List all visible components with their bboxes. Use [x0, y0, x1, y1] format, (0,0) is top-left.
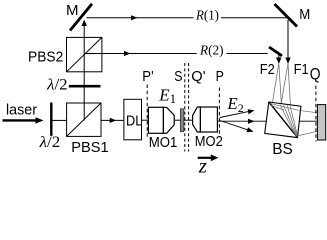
svg-text:BS: BS — [272, 141, 293, 158]
svg-text:P': P' — [142, 68, 153, 85]
mirror M top-right — [275, 4, 311, 27]
beam R(2) wire — [85, 43, 268, 58]
svg-text:Q: Q — [310, 66, 321, 84]
objective MO2 — [193, 107, 223, 150]
mirror M top-left — [66, 2, 92, 31]
svg-text:Q': Q' — [191, 68, 205, 85]
wire DL to MO1 — [142, 119, 151, 121]
beamsplitter BS cube (tilted) — [265, 102, 301, 158]
small folding mirror above F2 — [269, 47, 282, 56]
z axis arrow — [198, 153, 219, 177]
PBS2 cube — [28, 37, 102, 71]
detector camera at Q — [317, 105, 325, 140]
svg-text:λ/2: λ/2 — [39, 134, 61, 151]
thin beam cone from F1 into BS — [281, 64, 291, 107]
svg-text:P: P — [216, 68, 224, 85]
E2 diverging rays with arrows — [220, 94, 255, 132]
label E1 — [158, 86, 176, 106]
svg-text:DL: DL — [126, 112, 142, 129]
sample slab at S — [180, 109, 184, 132]
beam down from top-right mirror to F1 — [285, 20, 290, 64]
beam R(1) wire — [87, 8, 288, 23]
svg-text:MO2: MO2 — [195, 133, 223, 150]
label F1 — [294, 61, 309, 78]
svg-text:M: M — [66, 2, 79, 19]
wire sample to MO2 — [184, 119, 193, 121]
thin beams BS to detector — [297, 110, 318, 136]
dashed plane Q' — [189, 63, 206, 152]
svg-text:MO1: MO1 — [149, 134, 178, 151]
thin beams inside BS converging to corner — [269, 103, 298, 136]
laser source arrow — [3, 102, 44, 124]
PBS1 cube — [67, 103, 109, 156]
delay line DL box — [124, 99, 142, 140]
thin beam cone from F2 into BS — [272, 64, 282, 106]
wire MO1 to sample — [174, 119, 180, 121]
svg-text:PBS2: PBS2 — [28, 48, 63, 65]
svg-text:laser: laser — [6, 102, 37, 119]
svg-text:F2: F2 — [260, 61, 275, 78]
half-wave plate between PBS1 and PBS2 — [46, 76, 100, 93]
vertical beam PBS1 to mirror M — [82, 20, 87, 121]
dashed plane S — [174, 63, 185, 152]
beam down to F2 — [276, 55, 281, 64]
label Q — [310, 66, 321, 84]
dashed plane P' — [142, 68, 153, 138]
svg-text:R(2): R(2) — [199, 43, 224, 58]
wire laser waveplate to PBS1 — [53, 119, 67, 121]
half-wave plate before PBS1 — [39, 103, 61, 151]
svg-text:S: S — [174, 68, 182, 85]
svg-text:M: M — [299, 6, 310, 23]
objective MO1 — [148, 107, 177, 151]
wire PBS1 to DL with arrowhead — [101, 118, 124, 123]
label F2 — [260, 61, 275, 78]
svg-text:PBS1: PBS1 — [71, 139, 108, 156]
axis beam MO2 to detector — [217, 120, 317, 122]
svg-text:λ/2: λ/2 — [46, 76, 67, 93]
svg-text:z: z — [198, 153, 207, 177]
svg-text:F1: F1 — [294, 61, 309, 78]
dashed plane Q — [315, 86, 317, 142]
svg-text:R(1): R(1) — [195, 8, 219, 23]
dashed plane P — [216, 68, 224, 134]
